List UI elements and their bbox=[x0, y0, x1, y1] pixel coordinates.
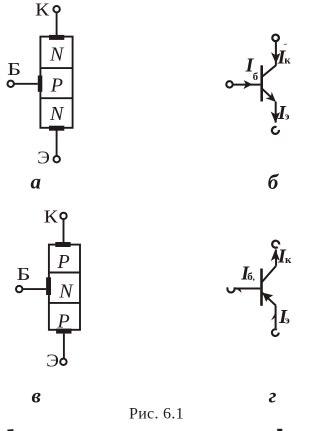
svg-text:а: а bbox=[31, 170, 42, 194]
base bar bbox=[260, 269, 263, 306]
emitter current half-arrow (up) bbox=[271, 312, 276, 321]
divider P/N bbox=[49, 272, 80, 274]
collector terminal circle bbox=[272, 35, 279, 42]
emitter terminal circle (open top) bbox=[272, 127, 279, 134]
svg-text:б: б bbox=[268, 170, 280, 194]
emitter arrowhead into bar (up-left) bbox=[262, 293, 273, 302]
base contact bar bbox=[38, 76, 43, 92]
wire K to body bbox=[63, 220, 65, 245]
terminal E circle bbox=[54, 156, 60, 162]
collector contact bar bbox=[55, 242, 70, 247]
svg-text:Б: Б bbox=[7, 59, 21, 79]
svg-text:б: б bbox=[253, 71, 259, 83]
emitter terminal circle (open top) bbox=[272, 329, 279, 336]
svg-text:э: э bbox=[285, 111, 290, 123]
svg-text:к: к bbox=[284, 55, 291, 67]
svg-text:г: г bbox=[269, 383, 277, 407]
svg-text:Э: Э bbox=[37, 147, 50, 167]
divider N/P bbox=[49, 302, 80, 304]
base wire bbox=[235, 288, 260, 290]
base wire bbox=[233, 84, 260, 86]
emitter contact bar bbox=[56, 329, 71, 334]
base terminal circle (open right) bbox=[227, 287, 234, 292]
emitter diagonal bbox=[262, 293, 276, 306]
svg-text:N: N bbox=[58, 280, 74, 302]
cut text mark bottom left bbox=[7, 429, 13, 431]
emitter vertical bbox=[275, 102, 277, 123]
emitter diagonal bbox=[262, 88, 275, 100]
svg-text:N: N bbox=[49, 43, 65, 65]
svg-text:N: N bbox=[49, 103, 65, 125]
wire body to E bbox=[63, 334, 65, 359]
svg-text:P: P bbox=[57, 310, 70, 332]
svg-text:Э: Э bbox=[46, 350, 59, 370]
svg-text:в: в bbox=[32, 383, 42, 407]
base bar bbox=[260, 65, 263, 101]
svg-text:P: P bbox=[57, 251, 70, 273]
base contact bar bbox=[46, 277, 51, 295]
collector terminal circle (open bottom) bbox=[272, 241, 279, 248]
terminal K circle bbox=[60, 213, 66, 219]
collector current arrow (down) bbox=[271, 52, 280, 64]
base half-arrow (left) bbox=[236, 288, 242, 293]
svg-text:Б: Б bbox=[17, 264, 31, 284]
svg-text:К: К bbox=[35, 0, 49, 20]
base current arrow bbox=[243, 80, 252, 89]
svg-text:,: , bbox=[253, 272, 255, 282]
base terminal circle bbox=[226, 81, 232, 87]
terminal K circle bbox=[53, 6, 59, 12]
terminal B circle bbox=[8, 81, 14, 87]
divider N/P bbox=[40, 67, 72, 69]
emitter current arrow (down) bbox=[271, 112, 280, 124]
cut text mark bottom right bbox=[277, 429, 282, 431]
body rectangle bbox=[49, 245, 80, 330]
divider P/N bbox=[40, 97, 72, 99]
minus mark bbox=[284, 43, 287, 45]
collector diagonal bbox=[262, 65, 276, 77]
collector vertical bbox=[275, 42, 277, 66]
collector contact bar bbox=[49, 35, 64, 40]
terminal B circle bbox=[16, 286, 22, 292]
wire K to body bbox=[56, 13, 58, 37]
svg-text:P: P bbox=[50, 74, 63, 96]
collector current arrow (up) bbox=[271, 249, 280, 261]
terminal E circle bbox=[60, 359, 66, 365]
wire B to body bbox=[14, 83, 38, 85]
svg-text:Рис. 6.1: Рис. 6.1 bbox=[129, 406, 184, 423]
emitter vertical bbox=[275, 306, 277, 329]
collector diagonal bbox=[262, 266, 277, 283]
svg-text:э: э bbox=[285, 315, 290, 327]
body rectangle bbox=[40, 37, 72, 128]
collector vertical bbox=[275, 250, 277, 266]
emitter arrowhead (down-right) bbox=[266, 92, 276, 102]
svg-text:к: к bbox=[285, 254, 292, 266]
svg-text:К: К bbox=[44, 206, 58, 226]
emitter contact bar bbox=[49, 126, 64, 131]
wire B to body bbox=[23, 288, 46, 290]
wire body to E bbox=[56, 131, 58, 156]
